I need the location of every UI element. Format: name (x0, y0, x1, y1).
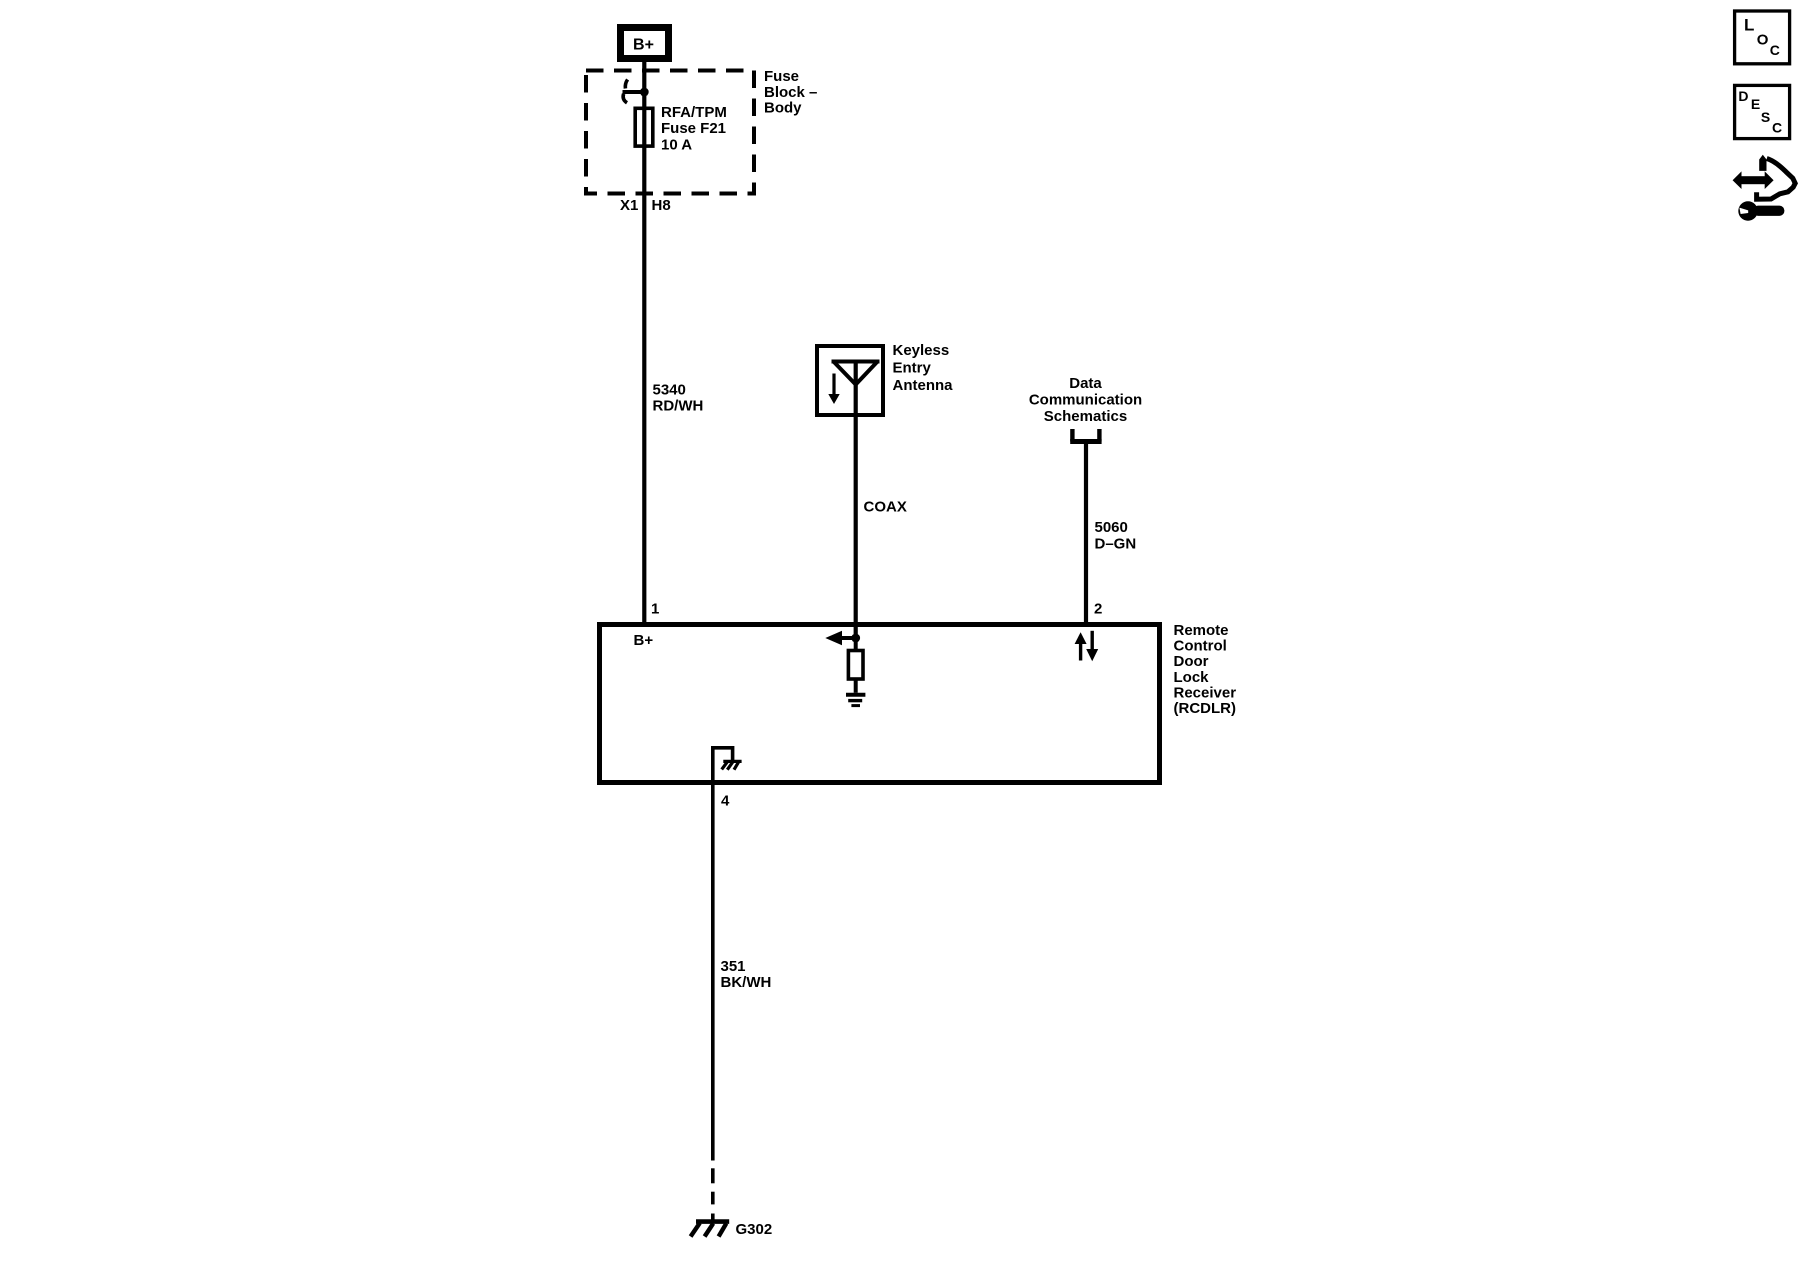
svg-text:Entry: Entry (893, 360, 932, 377)
svg-text:351: 351 (721, 958, 746, 975)
svg-text:2: 2 (1094, 601, 1102, 618)
coax wire antenna to RCDLR (854, 362, 858, 639)
svg-text:D–GN: D–GN (1095, 536, 1137, 553)
label Data Communication Schematics (1029, 375, 1142, 425)
svg-text:Body: Body (764, 100, 802, 117)
diagnostic navigation icon: double arrow (1733, 171, 1774, 189)
label Keyless Entry Antenna (893, 342, 954, 394)
fuse F21 element (635, 108, 653, 146)
svg-text:(RCDLR): (RCDLR) (1174, 700, 1236, 717)
svg-text:Fuse F21: Fuse F21 (661, 120, 726, 137)
svg-text:S: S (1761, 109, 1770, 125)
diagnostic navigation icon: outline arrow (1757, 155, 1796, 200)
wire data link to RCDLR pin 2 (1084, 443, 1088, 624)
wire label 351 BK/WH (721, 958, 772, 991)
svg-text:Schematics: Schematics (1044, 408, 1127, 425)
svg-text:Keyless: Keyless (893, 342, 950, 359)
wire RCDLR pin 4 to ground (solid part) (711, 785, 715, 1161)
junction node and left arrow inside box (825, 631, 860, 645)
svg-text:RD/WH: RD/WH (653, 398, 704, 415)
svg-text:O: O (1757, 32, 1769, 49)
internal ground below resistor (846, 679, 865, 706)
svg-text:Remote: Remote (1174, 622, 1229, 639)
svg-text:G302: G302 (736, 1221, 773, 1238)
internal case ground at pin 4 (713, 748, 742, 782)
fuse block - body (dashed box) (586, 71, 754, 194)
svg-text:D: D (1738, 88, 1748, 104)
svg-text:Block –: Block – (764, 84, 817, 101)
svg-text:Antenna: Antenna (893, 377, 954, 394)
label B+ at pin 1 inside box (634, 632, 654, 649)
keyless entry antenna box (817, 346, 883, 415)
svg-text:Door: Door (1174, 653, 1209, 670)
label Fuse Block - Body (764, 68, 817, 117)
svg-text:10 A: 10 A (661, 136, 692, 153)
antenna down arrow (828, 374, 839, 405)
svg-text:BK/WH: BK/WH (721, 974, 772, 991)
pin 2 label (1094, 601, 1102, 618)
svg-text:L: L (1744, 16, 1754, 35)
label RFA/TPM Fuse F21 10 A (661, 104, 727, 153)
connector label X1 (620, 197, 638, 214)
svg-text:COAX: COAX (864, 499, 907, 516)
svg-text:Lock: Lock (1174, 669, 1210, 686)
svg-text:Control: Control (1174, 638, 1227, 655)
wire B+ to RCDLR pin 1 (642, 58, 646, 624)
svg-text:1: 1 (651, 601, 659, 618)
serial data up arrow inside box (1075, 632, 1087, 660)
power feed B+ box (621, 28, 669, 59)
label Remote Control Door Lock Receiver (RCDLR) (1174, 622, 1237, 717)
ground G302 (691, 1222, 730, 1237)
fuse F21 clip symbol (623, 80, 649, 103)
svg-text:X1: X1 (620, 197, 638, 214)
svg-text:H8: H8 (652, 197, 671, 214)
off-page connector bracket (1070, 429, 1101, 442)
svg-text:C: C (1770, 42, 1780, 58)
terminal label H8 (652, 197, 671, 214)
serial data down arrow inside box (1086, 631, 1098, 662)
label COAX (864, 499, 907, 516)
RCDLR module box (600, 625, 1160, 783)
LOC icon box (1735, 11, 1790, 64)
wire label 5060 D-GN (1095, 519, 1137, 553)
svg-text:B+: B+ (634, 632, 654, 649)
diagnostic navigation icon: wrench (1738, 201, 1784, 220)
svg-text:5340: 5340 (653, 382, 686, 399)
svg-text:Data: Data (1069, 375, 1102, 392)
wire to ground (dashed part) (711, 1168, 715, 1220)
antenna load resistor inside box (848, 638, 863, 679)
svg-text:4: 4 (721, 793, 730, 810)
svg-text:Communication: Communication (1029, 392, 1142, 409)
pin 4 label (721, 793, 730, 810)
svg-text:C: C (1772, 119, 1782, 135)
label G302 (736, 1221, 773, 1238)
antenna symbol (832, 362, 880, 385)
svg-text:Receiver: Receiver (1174, 684, 1237, 701)
svg-text:5060: 5060 (1095, 519, 1128, 536)
svg-text:Fuse: Fuse (764, 68, 799, 85)
svg-text:E: E (1751, 96, 1760, 112)
wire label 5340 RD/WH (653, 382, 704, 415)
svg-text:B+: B+ (633, 37, 654, 54)
DESC icon box (1735, 85, 1790, 138)
pin 1 label (651, 601, 659, 618)
svg-text:RFA/TPM: RFA/TPM (661, 104, 727, 121)
